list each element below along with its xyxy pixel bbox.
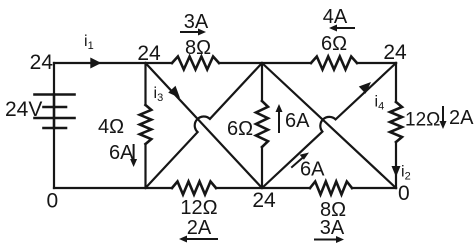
svg-text:6A: 6A xyxy=(285,110,310,132)
arrow 6A diagonal (lower middle) xyxy=(292,153,309,168)
arrow 3A right (bottom) xyxy=(315,236,344,243)
svg-text:6Ω: 6Ω xyxy=(321,33,347,55)
svg-text:i2: i2 xyxy=(401,164,411,183)
resistor R7 8Ω (bottom right) xyxy=(310,182,352,195)
wire: top rail left segment (node 24 left to 8-ohm) xyxy=(54,62,172,64)
svg-text:8Ω: 8Ω xyxy=(185,37,211,59)
arrow 2A left (bottom) xyxy=(179,236,217,243)
arrow 3A right xyxy=(181,29,206,36)
wire: center branch lower lead xyxy=(261,147,263,188)
svg-text:6Ω: 6Ω xyxy=(227,118,253,140)
resistor R6 12Ω (bottom left) xyxy=(172,182,216,195)
wire: center branch upper lead xyxy=(261,63,263,101)
svg-text:24: 24 xyxy=(383,41,407,64)
svg-text:24: 24 xyxy=(30,51,54,74)
svg-text:24V: 24V xyxy=(5,98,42,121)
wire: branch A lower lead xyxy=(144,144,146,188)
arrow i1 (on top rail) xyxy=(90,58,101,69)
svg-text:2A: 2A xyxy=(449,107,474,129)
resistor R2 6Ω (top right) xyxy=(311,57,357,70)
svg-text:3A: 3A xyxy=(320,217,345,239)
wire: right rail lower lead xyxy=(395,142,397,188)
wire: branch A upper lead xyxy=(144,63,146,105)
arrow 6A up (center) xyxy=(276,104,283,132)
svg-text:12Ω: 12Ω xyxy=(180,197,217,219)
wire: bottom rail middle segment xyxy=(216,187,310,189)
svg-text:2A: 2A xyxy=(187,217,212,239)
battery V1 24V xyxy=(35,95,75,129)
svg-text:4Ω: 4Ω xyxy=(98,116,124,138)
svg-text:i3: i3 xyxy=(154,85,164,104)
arrow 6A down (left branch) xyxy=(130,145,137,167)
resistor R3 4Ω (left inner branch) xyxy=(140,105,152,144)
svg-text:6A: 6A xyxy=(300,159,325,181)
svg-text:6A: 6A xyxy=(109,142,134,164)
wire: top rail middle segment xyxy=(219,62,311,64)
resistor R4 6Ω (center branch) xyxy=(256,101,268,147)
wire: top rail right segment xyxy=(357,62,396,64)
svg-text:24: 24 xyxy=(252,189,276,212)
svg-text:i1: i1 xyxy=(84,33,94,52)
arrow 4A left xyxy=(329,25,354,32)
arrow i2 (on right rail) xyxy=(392,166,401,177)
wire: diagonal bottom center to top right with crossover hop (i4 branch) xyxy=(262,63,396,188)
svg-text:24: 24 xyxy=(137,42,161,65)
wire: left rail upper (to battery) xyxy=(53,63,55,95)
wire: diagonal node A to node 24 bottom (i3 branch) xyxy=(146,63,263,188)
svg-text:0: 0 xyxy=(398,182,410,205)
svg-text:i4: i4 xyxy=(375,94,385,113)
wire: bottom rail left segment xyxy=(54,187,172,189)
resistor R1 8Ω (top left) xyxy=(172,57,219,70)
svg-text:0: 0 xyxy=(47,190,59,213)
arrow i4 (on diagonal) xyxy=(359,82,371,94)
arrow i3 (on diagonal) xyxy=(168,86,180,98)
svg-text:12Ω: 12Ω xyxy=(405,110,440,131)
wire: diagonal top center to bottom right corner xyxy=(262,63,396,188)
wire: bottom rail right segment xyxy=(352,187,396,189)
wire: diagonal top center to bottom left with crossover hop xyxy=(146,63,263,188)
wire: left rail lower (battery to bottom) xyxy=(53,128,55,188)
wire: right rail upper lead xyxy=(395,63,397,102)
resistor R5 12Ω (right rail) xyxy=(390,102,402,142)
arrow 2A down (right) xyxy=(440,107,447,129)
svg-text:3A: 3A xyxy=(184,11,209,33)
svg-text:4A: 4A xyxy=(323,6,348,28)
